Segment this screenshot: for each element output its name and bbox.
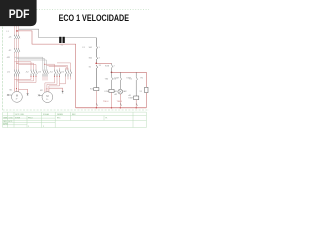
svg-text:ECO 1 VELOCIDADE: ECO 1 VELOCIDADE — [59, 13, 129, 23]
svg-text:K2M: K2M — [105, 91, 109, 93]
svg-text:TS0 4: TS0 4 — [103, 101, 109, 103]
svg-text:DESEN: DESEN — [57, 114, 64, 116]
svg-text:M: M — [16, 94, 18, 98]
svg-text:PROJ: PROJ — [28, 117, 33, 119]
svg-text:2: 2 — [43, 126, 44, 128]
svg-text:T1: T1 — [61, 45, 63, 47]
svg-text:M: M — [46, 94, 48, 98]
svg-text:APRO: APRO — [3, 122, 8, 125]
svg-text:1: 1 — [28, 126, 29, 128]
svg-text:K3M: K3M — [129, 98, 133, 100]
svg-text:TS0 6: TS0 6 — [117, 101, 123, 103]
svg-text:FOLHA: FOLHA — [43, 113, 50, 116]
svg-text:10/10: 10/10 — [9, 117, 13, 119]
svg-text:ECO 1 VEL: ECO 1 VEL — [16, 114, 25, 116]
svg-text:K2M: K2M — [115, 77, 119, 79]
svg-text:K1M: K1M — [90, 89, 94, 91]
svg-text:NOME: NOME — [15, 117, 21, 119]
svg-text:FL: FL — [106, 117, 108, 119]
svg-text:K1M: K1M — [105, 65, 109, 67]
svg-text:PDF: PDF — [9, 7, 30, 21]
